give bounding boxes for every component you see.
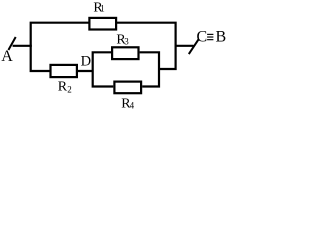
svg-text:C: C [197, 29, 208, 46]
svg-text:1: 1 [100, 4, 105, 14]
svg-text:B: B [216, 29, 227, 46]
svg-text:D: D [81, 54, 91, 70]
svg-text:3: 3 [124, 36, 129, 46]
svg-text:2: 2 [67, 84, 72, 94]
svg-text:A: A [1, 48, 13, 65]
svg-text:4: 4 [130, 101, 135, 111]
